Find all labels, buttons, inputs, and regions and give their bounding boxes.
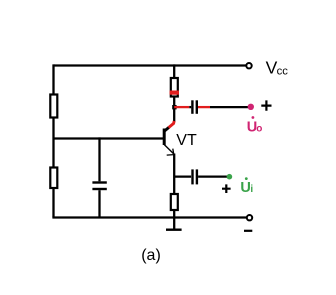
svg-text:U: U — [240, 180, 250, 196]
wire: collector branch from top rail — [173, 64, 175, 79]
wire: base bias wire (left rail to transistor base) — [54, 137, 165, 139]
svg-text:(a): (a) — [141, 247, 161, 264]
terminal: output terminal (filled pink) — [248, 104, 254, 110]
emitter diagonal with arrow — [164, 145, 174, 155]
terminal: negative terminal (open circle, bottom right) — [247, 215, 252, 220]
wire: input wire to terminal — [198, 175, 227, 177]
resistor Rc (collector resistor, red-marked lower section) — [170, 78, 179, 97]
label: + (input polarity) — [222, 184, 231, 193]
wire: emitter resistor lead to bottom rail and ground — [173, 210, 175, 229]
svg-text:o: o — [256, 124, 262, 135]
label: U̇o (output voltage, pink) — [247, 116, 263, 136]
wire: collector lead from Rc to transistor — [173, 97, 175, 122]
resistor R2 (lower bias resistor) — [50, 168, 57, 189]
wire: left vertical rail — [52, 64, 54, 217]
transistor VT (NPN) — [164, 121, 174, 155]
label: U̇i (input voltage, green) — [240, 177, 253, 196]
collector diagonal (red upper half) — [169, 121, 175, 128]
wire: output wire to terminal — [210, 106, 248, 108]
collector diagonal (black lower half) — [164, 127, 169, 131]
capacitor C2 (base bypass capacitor) — [92, 137, 106, 217]
resistor Re (emitter resistor) — [171, 194, 178, 210]
terminal: input terminal (filled green) — [227, 174, 233, 180]
label: Vcc — [266, 58, 289, 78]
ground — [166, 228, 182, 230]
wire: bottom rail — [52, 216, 246, 218]
terminal: Vcc terminal (open circle) — [246, 63, 251, 68]
wire: emitter lead down — [173, 154, 175, 195]
base bar — [163, 129, 166, 146]
svg-text:cc: cc — [277, 65, 289, 77]
wire: output wire red segment (junction to C3) — [174, 106, 189, 108]
svg-text:VT: VT — [176, 132, 197, 149]
svg-text:i: i — [250, 184, 253, 195]
label: − (negative polarity) — [244, 230, 252, 232]
wire: input wire from emitter to C1 — [174, 175, 191, 177]
node: collector output junction dot — [172, 105, 176, 109]
wire: top supply rail — [54, 64, 247, 66]
wire: output wire red segment (C3 to lead) — [198, 106, 210, 108]
label: + (output polarity) — [261, 100, 271, 110]
capacitor C3 (output coupling capacitor) — [192, 100, 196, 114]
resistor R1 (upper bias resistor) — [50, 95, 57, 118]
wire: short black stub before C3 — [189, 106, 191, 108]
capacitor C1 (input coupling capacitor) — [193, 169, 197, 184]
